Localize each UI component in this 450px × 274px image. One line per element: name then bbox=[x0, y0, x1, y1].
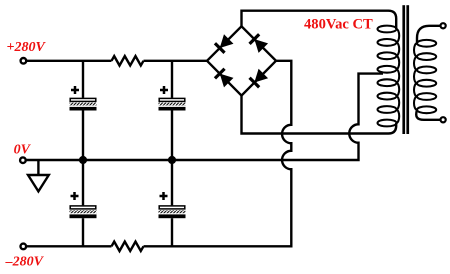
wire secondary top lead bbox=[417, 26, 441, 44]
wire bottom rail to bridge negative with hops bbox=[144, 61, 292, 247]
wire cap C1 lower lead bbox=[82, 111, 84, 161]
svg-text:480Vac CT: 480Vac CT bbox=[304, 17, 373, 33]
wire bridge AC bottom to transformer primary bottom bbox=[242, 96, 397, 134]
wire cap C3 lower lead bbox=[82, 218, 84, 246]
junction dot node B (C2/C4 at 0V) bbox=[168, 156, 176, 164]
capacitor C3 (lower left) bbox=[70, 192, 97, 218]
bridge rectifier diamond wires bbox=[207, 26, 276, 95]
junction dot node A (C1/C3 at 0V) bbox=[79, 156, 87, 164]
wire bottom rail left segment bbox=[26, 245, 111, 247]
svg-text:0V: 0V bbox=[14, 143, 32, 158]
wire secondary bottom lead bbox=[416, 110, 440, 120]
terminal -280V bbox=[21, 244, 27, 250]
ground stub wire bbox=[37, 160, 39, 175]
wire cap C2 upper lead bbox=[171, 61, 173, 98]
wire 0V mid rail to center tap bbox=[26, 74, 383, 160]
wire top rail left segment bbox=[26, 60, 111, 62]
svg-text:+280V: +280V bbox=[7, 40, 47, 55]
resistor R2 bottom rail bbox=[112, 242, 144, 251]
transformer core bbox=[402, 5, 409, 134]
diode D2 (bottom-left arm) bbox=[215, 69, 234, 88]
diode D1 (top-left arm) bbox=[215, 34, 234, 53]
capacitor C2 (upper right) bbox=[159, 86, 186, 111]
wire cap C3 upper lead bbox=[82, 160, 84, 205]
terminal +280V bbox=[21, 58, 27, 64]
wire bridge AC top to transformer primary top bbox=[242, 11, 397, 29]
wire cap C2 lower lead bbox=[171, 111, 173, 161]
transformer T1 primary winding bbox=[378, 26, 400, 127]
resistor R1 top rail bbox=[112, 56, 144, 65]
wire cap C4 upper lead bbox=[171, 160, 173, 205]
diode D4 (bottom-right arm) bbox=[250, 69, 269, 88]
terminal secondary bottom bbox=[441, 117, 446, 122]
transformer T1 secondary winding bbox=[414, 40, 436, 113]
capacitor C4 (lower right) bbox=[159, 192, 186, 218]
terminal secondary top bbox=[441, 23, 446, 28]
svg-text:–280V: –280V bbox=[5, 255, 45, 270]
diode D3 (top-right arm) bbox=[250, 34, 269, 53]
wire cap C4 lower lead bbox=[171, 218, 173, 246]
ground symbol bbox=[28, 175, 49, 191]
terminal 0V bbox=[20, 157, 26, 163]
wire top rail right segment bbox=[144, 60, 208, 62]
wire cap C1 upper lead bbox=[82, 61, 84, 98]
capacitor C1 (upper left) bbox=[70, 86, 97, 111]
